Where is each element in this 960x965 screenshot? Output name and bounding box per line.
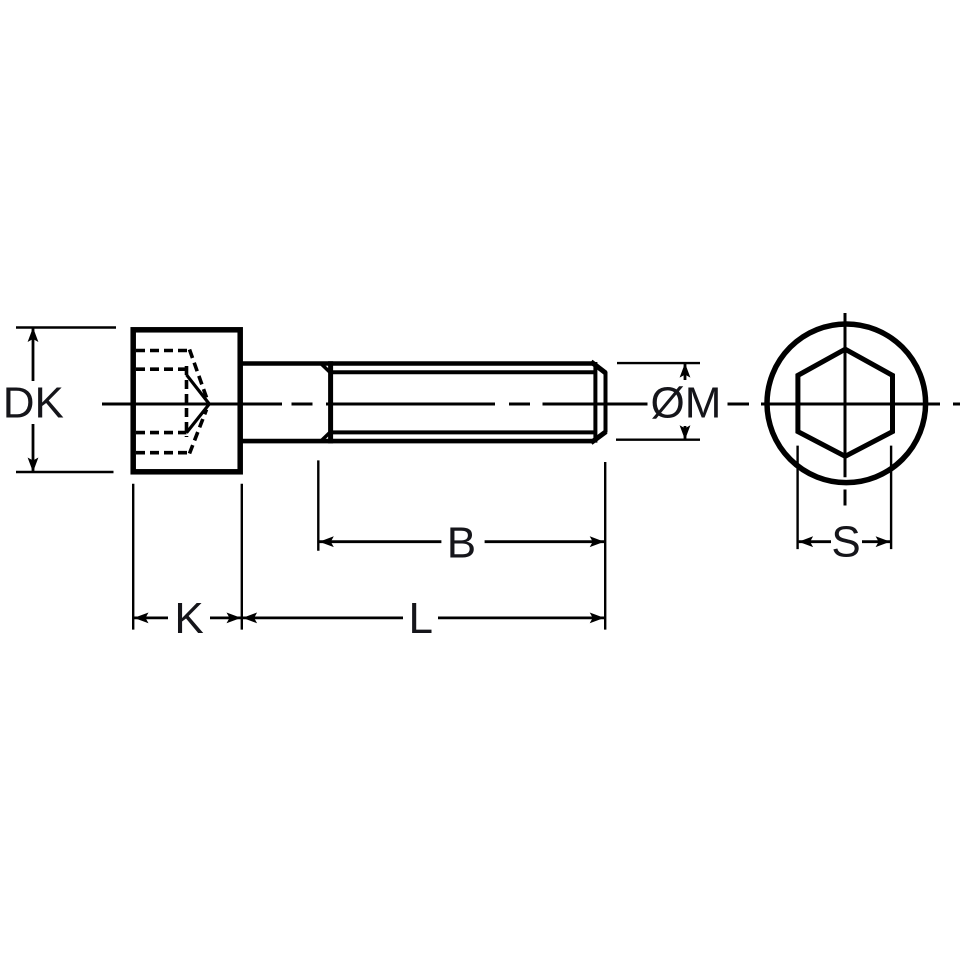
S left extension line xyxy=(796,446,798,549)
thread end chamfer top xyxy=(591,362,606,373)
hex socket hidden line top outer xyxy=(136,349,190,353)
svg-text:K: K xyxy=(174,594,203,643)
hex socket hidden line bottom inner xyxy=(136,431,187,435)
end view vertical centerline xyxy=(844,313,847,477)
DK arrow down xyxy=(28,458,39,473)
screw head outline xyxy=(133,330,240,472)
svg-text:S: S xyxy=(831,518,860,567)
L arrow right xyxy=(590,613,605,624)
svg-text:L: L xyxy=(409,594,433,643)
thread start chamfer bottom xyxy=(321,433,330,441)
B left extension line xyxy=(317,460,319,550)
end view outer circle xyxy=(767,324,926,483)
B dimension line left xyxy=(319,540,441,543)
end view hex socket xyxy=(798,349,893,456)
L dimension line right xyxy=(438,617,604,620)
S right extension line xyxy=(890,446,892,549)
B arrow left xyxy=(319,536,334,547)
OM top extension line xyxy=(617,362,700,364)
OM bottom extension line xyxy=(616,439,700,441)
K dimension line right xyxy=(210,617,241,620)
shaft bottom line xyxy=(241,439,593,444)
S dimension line right xyxy=(862,540,890,543)
DK bottom extension line xyxy=(16,471,114,473)
OM arrow up xyxy=(680,363,691,378)
hex socket hidden cone lower diagonal xyxy=(190,410,207,454)
hex socket hidden cone upper diagonal xyxy=(190,350,207,398)
socket drill point V xyxy=(187,375,210,433)
thread minor top line xyxy=(333,370,595,374)
DK top extension line xyxy=(16,326,116,328)
K left extension line xyxy=(132,484,134,630)
screw end face vertical xyxy=(604,372,608,433)
K right extension line xyxy=(241,484,243,630)
hex socket hidden line top inner xyxy=(136,367,187,371)
thread end vertical xyxy=(593,362,597,443)
hex socket depth hidden vertical line xyxy=(185,366,189,437)
L dimension line left xyxy=(243,617,403,620)
svg-text:DK: DK xyxy=(3,378,64,427)
OM arrow down xyxy=(680,425,691,440)
svg-text:ØM: ØM xyxy=(651,379,722,428)
S arrow left xyxy=(799,536,814,547)
DK dimension line upper xyxy=(32,329,35,382)
B and L shared right extension line xyxy=(604,462,606,630)
L arrow left xyxy=(243,613,258,624)
DK arrow up xyxy=(28,328,39,343)
S dimension line left xyxy=(799,540,831,543)
thread end chamfer bottom xyxy=(591,432,606,443)
svg-text:B: B xyxy=(447,519,476,568)
DK dimension line lower xyxy=(32,424,35,471)
thread start vertical xyxy=(328,361,333,443)
hex socket hidden line bottom outer xyxy=(136,451,190,455)
thread start chamfer top xyxy=(321,364,330,372)
S arrow right xyxy=(876,536,891,547)
K dimension line left xyxy=(134,617,168,620)
B arrow right xyxy=(590,536,605,547)
thread minor bottom line xyxy=(333,430,595,434)
OM dimension line lower xyxy=(684,426,687,439)
K arrow right xyxy=(227,613,242,624)
end view vertical centerline dash xyxy=(844,490,847,506)
shaft top line xyxy=(241,361,593,366)
OM dimension line upper xyxy=(684,364,687,380)
main horizontal centerline xyxy=(102,403,960,406)
B dimension line right xyxy=(485,540,605,543)
K arrow left xyxy=(134,613,149,624)
